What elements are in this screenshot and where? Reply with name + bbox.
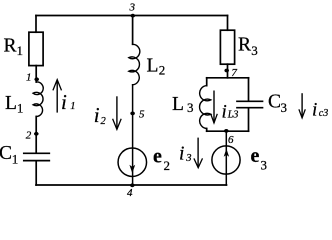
current arrow ic3 (down): [299, 93, 328, 120]
svg-text:1: 1: [70, 101, 75, 112]
svg-text:L: L: [172, 94, 184, 115]
svg-text:3: 3: [251, 43, 257, 58]
svg-text:i: i: [179, 144, 184, 165]
svg-text:3: 3: [261, 158, 268, 173]
svg-text:R: R: [4, 35, 17, 56]
inductor L2: [129, 44, 140, 85]
svg-text:2: 2: [164, 158, 171, 173]
wire top horizontal: [36, 15, 228, 17]
current arrow iL3 (down): [211, 91, 239, 124]
svg-text:i: i: [222, 102, 227, 123]
label R3: [238, 35, 258, 59]
label L2: [147, 56, 166, 78]
label C1: [0, 143, 18, 166]
svg-text:3: 3: [185, 153, 191, 164]
svg-text:i: i: [312, 99, 317, 120]
svg-text:L3: L3: [227, 110, 239, 121]
wire LC box top: [207, 77, 249, 79]
svg-text:e: e: [251, 145, 260, 167]
node 6: [224, 129, 234, 146]
svg-text:6: 6: [228, 134, 234, 146]
source e2 circle: [118, 148, 147, 177]
node 1: [26, 72, 39, 84]
svg-text:1: 1: [26, 72, 32, 84]
wire LC box right upper: [248, 78, 250, 101]
node 5: [130, 109, 145, 121]
resistor R1: [29, 32, 43, 65]
wire R3 to LC box through node 7: [227, 64, 229, 78]
svg-text:i: i: [61, 90, 67, 114]
svg-text:1: 1: [17, 43, 24, 58]
svg-text:C: C: [268, 92, 281, 113]
label L3: [172, 94, 194, 115]
svg-text:c3: c3: [319, 108, 328, 119]
resistor R3: [220, 30, 234, 64]
wire left branch top (node3-side down to R1): [35, 16, 37, 33]
wire LC box left lower: [206, 129, 208, 132]
wire LC box bottom: [207, 130, 249, 132]
source e3 arrow (up): [224, 149, 229, 157]
svg-text:2: 2: [159, 63, 166, 78]
wire C1 to bottom wire: [35, 161, 37, 185]
svg-text:e: e: [153, 146, 162, 168]
svg-text:L: L: [5, 93, 17, 114]
label L1: [5, 93, 23, 116]
source e3 circle: [212, 146, 240, 174]
svg-text:2: 2: [26, 130, 32, 142]
inductor L1: [33, 82, 43, 117]
svg-text:7: 7: [231, 67, 237, 79]
inductor L3: [200, 86, 211, 129]
svg-text:L: L: [147, 56, 159, 77]
svg-text:C: C: [0, 143, 12, 164]
node 4: [127, 183, 135, 199]
current arrow i3 (down): [179, 138, 203, 168]
wire node 6 down through e3 to bottom wire: [225, 131, 227, 185]
svg-text:1: 1: [17, 101, 24, 116]
wire LC box right lower: [248, 108, 250, 131]
svg-text:5: 5: [139, 109, 145, 121]
svg-text:3: 3: [129, 2, 136, 14]
wire LC box left upper: [206, 78, 208, 86]
label R1: [4, 35, 24, 58]
wire bottom horizontal: [36, 184, 227, 186]
wire R1 to L1 through node 1: [35, 66, 37, 82]
label e2: [153, 146, 170, 174]
current arrow i1 (up): [53, 80, 76, 114]
node 2: [26, 130, 39, 142]
source e2 arrow (down): [129, 165, 135, 173]
capacitor C3: [237, 101, 263, 107]
node 7: [224, 67, 237, 79]
svg-text:3: 3: [187, 100, 194, 115]
svg-text:2: 2: [101, 116, 107, 127]
label e3: [251, 145, 268, 172]
current arrow i2 (down): [94, 96, 121, 129]
wire middle branch from node 3 to L2: [132, 16, 134, 45]
node 3: [129, 2, 136, 18]
label C3: [268, 92, 287, 116]
wire right branch top to R3: [227, 16, 229, 31]
svg-text:1: 1: [12, 151, 18, 166]
svg-text:4: 4: [127, 187, 133, 199]
wire L2 through node 5 and e2 to node 4: [132, 85, 134, 185]
svg-text:R: R: [238, 35, 251, 56]
svg-text:3: 3: [281, 100, 288, 115]
svg-text:i: i: [94, 103, 100, 127]
capacitor C1: [24, 153, 50, 160]
wire L1 to C1 through node 2: [35, 117, 37, 154]
